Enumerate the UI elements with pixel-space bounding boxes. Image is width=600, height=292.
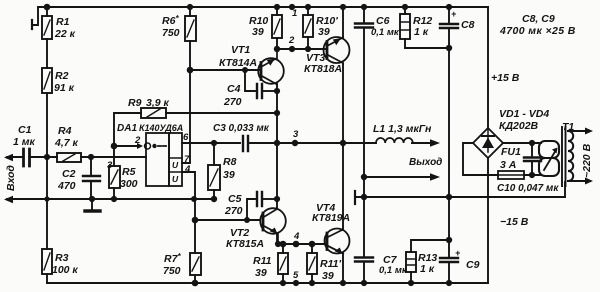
node dot R8 top [211,140,217,146]
wire R9 right leg to driver bus [166,112,277,114]
svg-text:39: 39 [322,270,334,282]
svg-text:4: 4 [184,164,191,175]
svg-text:VD1 - VD4: VD1 - VD4 [499,108,549,120]
wire R8 bottom to common rail end [211,190,216,199]
node dot pin2/R5/R9 [111,143,118,150]
capacitor C1 [24,149,30,166]
node dot bus at node3 line [274,140,280,146]
wire top-left supply stub with terminal bar [33,7,47,25]
node dot R9 bus [274,110,280,116]
wire input signal line left of C1 [7,156,23,158]
resistor R10' [303,15,313,37]
wire fuse to C10 bottom to secondary [524,174,541,176]
wire C4 right leg to driver bus [263,90,277,92]
svg-text:1 к: 1 к [414,26,429,38]
node dot R1 top [44,4,51,11]
wire C6 bottom lead down to output common [363,28,365,177]
wire C8 leads and supply midpoint column [448,7,450,197]
node dot C7 bottom [361,280,367,286]
diode bridge VD1-VD4 [473,128,503,158]
resistor R3 [42,249,52,274]
svg-text:1 к: 1 к [420,263,435,275]
resistor R8 [208,165,220,190]
wire ground line up to transformer shield [564,182,566,197]
node dot R10 top [274,4,280,10]
wire VT2 base node to R7 [194,220,196,253]
node dot C8 rail [446,4,452,10]
node dot R11' bottom [309,280,315,286]
output arrowhead top [430,139,440,146]
capacitor C9 [440,258,458,262]
node dot midpoint/ground junction [446,194,452,200]
svg-text:750: 750 [163,265,181,277]
svg-text:С10 0,047 мк: С10 0,047 мк [497,183,559,194]
svg-text:Выход: Выход [409,157,442,168]
svg-text:22 к: 22 к [54,28,76,40]
node dot VT4 emitter rail [340,280,346,286]
node dot C2 bottom [89,196,95,202]
input arrow left [4,154,13,161]
node dot VT1 base node [187,67,194,74]
svg-text:R8: R8 [223,156,237,168]
wire C7 leads [363,197,365,283]
wire R11 leads [282,244,284,283]
svg-text:Т1: Т1 [562,121,574,133]
node dot R12/C8 junction [446,45,452,51]
wire VT4 emitter to -rail [342,253,344,283]
svg-text:R4: R4 [58,125,72,137]
node dot R10' top [305,4,311,10]
node dot test point 1 [289,4,295,10]
wire node2 line to VT3 base [277,48,326,50]
node dot R11 bottom [280,280,286,286]
node dot test point 3 [292,140,298,146]
svg-text:3: 3 [293,129,299,140]
svg-text:4700 мк ×25 В: 4700 мк ×25 В [499,25,576,37]
capacitor C7 [355,258,373,262]
wire output common to ground line [363,177,365,197]
node dot R7 bottom [192,280,199,287]
node dot R13/C9 junction [446,237,452,243]
svg-text:R11': R11' [320,258,341,270]
op-amp DA1 pin2 input marker [137,143,143,149]
node dot C6 rail [361,4,367,10]
wire DA1 pin6 output line [182,142,240,144]
svg-text:R6*: R6* [162,14,179,27]
svg-text:39: 39 [255,267,267,279]
node dot test point 5 [293,280,299,286]
wire R11' leads [311,244,313,283]
node dot VT3/VT4 emitter junction [340,140,346,146]
svg-text:3 А: 3 А [500,159,516,171]
svg-text:FU1: FU1 [501,146,521,158]
capacitor C8 [440,24,458,28]
svg-text:5: 5 [293,270,299,281]
node dot R11 top [280,241,287,248]
resistor R5 [109,166,120,188]
svg-text:270: 270 [224,205,243,217]
svg-text:+: + [451,9,457,19]
wire VT3 emitter to VT4 collector [342,64,344,230]
node dot ground/C7 [361,194,367,200]
wire midpoint to C9 [448,197,450,283]
transistor Q2 VT2 [260,208,286,244]
capacitor C4 [257,84,262,98]
transformer T1 core [562,127,566,186]
svg-text:U: U [172,160,179,170]
svg-text:R3: R3 [55,252,69,264]
wire VT2 emitter down to node4 line [276,234,278,244]
wire R13 bottom leg [410,272,412,283]
node dot output common [361,174,367,180]
svg-text:R9: R9 [128,97,142,109]
transformer T1 primary winding [568,131,573,181]
wire bridge right AC to secondary top [503,142,541,144]
node dot R10' bottom [305,46,311,52]
svg-text:R2: R2 [55,70,69,82]
resistor R2 [42,68,52,93]
wire input line to R3 [46,157,48,249]
svg-text:91 к: 91 к [54,82,75,94]
svg-text:1: 1 [292,8,297,19]
wire C3 to node 3 line [250,142,376,144]
svg-text:39: 39 [252,26,264,38]
capacitor C3 [243,136,248,151]
node dot input/divider junction [44,154,50,160]
op-amp DA1 cell glyphs [172,160,179,184]
svg-text:VТ1: VТ1 [231,44,250,56]
wire R13 top leg [411,240,449,252]
op-amp U1 DA1 body [146,133,169,186]
wire R1-R2 column [46,7,48,68]
svg-text:470: 470 [57,180,76,192]
wire DA1 pin2 line [114,145,137,147]
input common arrow left [4,196,13,203]
wire primary bottom terminal [568,180,587,182]
wire VT3 collector to +rail [342,7,344,38]
transistor Q4 VT4 [325,229,350,255]
node dot C5 base tap [244,217,250,223]
node dot C10 top [529,140,535,146]
wire bridge left AC to fuse [463,143,498,175]
svg-text:DA1: DA1 [117,123,137,134]
svg-text:С8, С9: С8, С9 [522,13,555,25]
fuse FU1 [498,171,524,179]
wire VT1 base line [190,69,259,71]
transistor Q1 VT1 [258,49,284,85]
wire output common line with arrow [364,176,433,178]
resistor R1 [42,16,52,39]
ground symbol below C2 [91,199,93,209]
svg-text:~220 В: ~220 В [581,143,593,178]
node dot C9 bottom [446,280,452,286]
wire R7 bottom lead [194,275,196,283]
svg-text:4: 4 [293,231,300,242]
wire primary top terminal [568,130,587,132]
svg-text:КТ818А: КТ818А [304,63,342,75]
wire R10' leads [307,7,309,49]
wire R10 leads [276,7,278,49]
resistor R6 [185,16,196,41]
node dot VT2 base node [192,217,199,224]
wire C1 to R4 [31,156,57,158]
resistor R11 [278,253,288,274]
svg-text:−15 В: −15 В [500,216,529,228]
resistor R12 [400,14,410,39]
transformer T1 secondary winding [539,141,559,176]
resistor R10 [272,15,282,38]
node dot test point 4 [293,241,300,248]
wire R6 top lead [189,7,191,16]
node dot R5 bottom [111,196,117,202]
node dot VT3 collector rail [340,4,346,10]
node dot R11' top [309,241,316,248]
node dot common rail at pin4 column crossing [191,196,197,202]
output arrowhead bottom [430,173,440,180]
svg-text:+: + [455,248,461,258]
node dot R8 bottom [211,196,217,202]
svg-text:L1 1,3 мкГн: L1 1,3 мкГн [373,123,432,135]
svg-text:3,9 к: 3,9 к [146,97,170,109]
resistor R7 [190,253,201,275]
svg-text:С9: С9 [466,259,480,271]
svg-text:КТ815А: КТ815А [226,238,264,250]
node dot VT2 emitter [275,241,281,247]
wire ground line to supply midpoint and transformer [356,196,565,198]
wire node4 line to VT4 base [277,243,325,245]
svg-text:750: 750 [162,27,180,39]
svg-text:39: 39 [318,26,330,38]
svg-text:R7*: R7* [164,252,181,265]
wire R8 top leg [213,143,215,165]
svg-text:300: 300 [120,178,138,190]
node dot test point 2 [289,46,295,52]
capacitor C10 [524,158,541,162]
node dot C10 bottom [529,172,535,178]
wire R9 left leg down to pin2 node [114,113,141,146]
svg-text:К140УД6А: К140УД6А [139,123,183,133]
wire C6 top lead [363,7,365,23]
transistor Q3 VT3 [324,37,350,64]
svg-text:Вход: Вход [5,165,17,191]
svg-text:3: 3 [107,160,113,171]
inductor L1 [376,138,413,143]
svg-text:С3 0,033 мк: С3 0,033 мк [213,123,270,134]
node dot R10 bottom / VT1 collector [274,46,280,52]
ground line terminal bar [354,191,356,204]
capacitor C6 [355,24,373,28]
svg-text:270: 270 [223,96,242,108]
wire R5 bottom leg to common rail [113,188,115,199]
node dot R6 rail [187,4,193,10]
junction blob divider/common rail crossing [44,196,49,201]
resistor R11' [307,253,317,274]
svg-text:КТ819А: КТ819А [312,212,350,224]
svg-text:С1: С1 [18,124,32,136]
resistor R4 [57,153,81,162]
resistor R9 [141,108,166,118]
wire R5 top leg [113,146,115,166]
svg-text:R11: R11 [253,255,272,267]
svg-text:2: 2 [288,35,295,46]
svg-text:100 к: 100 к [52,264,78,276]
wire R6 bottom to DA1 pin7 [182,41,190,163]
node dot C4 bus [274,88,280,94]
op-amp DA1 side column [169,133,182,186]
svg-text:R5: R5 [122,166,136,178]
wire R3 to -15V rail [46,274,48,283]
svg-text:6: 6 [183,132,189,143]
wire C2 branch [90,157,92,199]
svg-text:R1: R1 [56,16,70,28]
wire DA1 pin4 to VT2 base node [182,172,195,220]
wire R12 leads [405,7,449,48]
svg-text:КД202В: КД202В [499,120,539,132]
wire +rail turn down to bridge [487,7,489,128]
svg-text:С4: С4 [227,83,241,95]
wire R2 to input line [46,93,48,157]
wire R4 to DA1 pin3 [81,156,146,158]
capacitor C5 [257,192,262,206]
capacitor C2 [83,176,100,181]
resistor R13 [406,252,416,272]
wire L1 tail and output arrow [412,142,433,144]
node dot R12 top [402,4,408,10]
wire bridge minus to -rail [487,158,489,283]
wire VT2 base line [195,219,260,221]
node dot C5 bus [274,196,280,202]
wire C4 left leg from base [245,70,255,91]
wire C5 left leg to VT2 base [247,199,255,220]
wire C10 leads [531,143,533,175]
node dot C4 base tap [242,67,248,73]
svg-text:39: 39 [223,169,235,181]
node dot R13 bottom [408,280,414,286]
svg-text:U: U [172,174,179,184]
svg-text:+15 В: +15 В [491,72,520,84]
svg-text:С2: С2 [62,168,76,180]
svg-text:С6: С6 [376,15,390,27]
svg-text:1 мк: 1 мк [13,136,36,148]
svg-text:0,1 мк: 0,1 мк [379,265,408,276]
wire driver bus VT1 to VT2 [276,84,278,208]
wire -15V bottom rail [47,282,488,284]
svg-text:2: 2 [134,135,141,146]
svg-text:С5: С5 [228,193,242,205]
wire C5 right leg to bus [263,198,277,200]
node dot C2 top [88,154,94,160]
wire +15V top rail [47,6,488,8]
wire input common rail [7,198,215,200]
svg-text:С8: С8 [461,19,475,31]
svg-text:0,1 мк: 0,1 мк [371,27,400,38]
svg-text:4,7 к: 4,7 к [54,137,79,149]
svg-text:КТ814А: КТ814А [219,57,257,69]
